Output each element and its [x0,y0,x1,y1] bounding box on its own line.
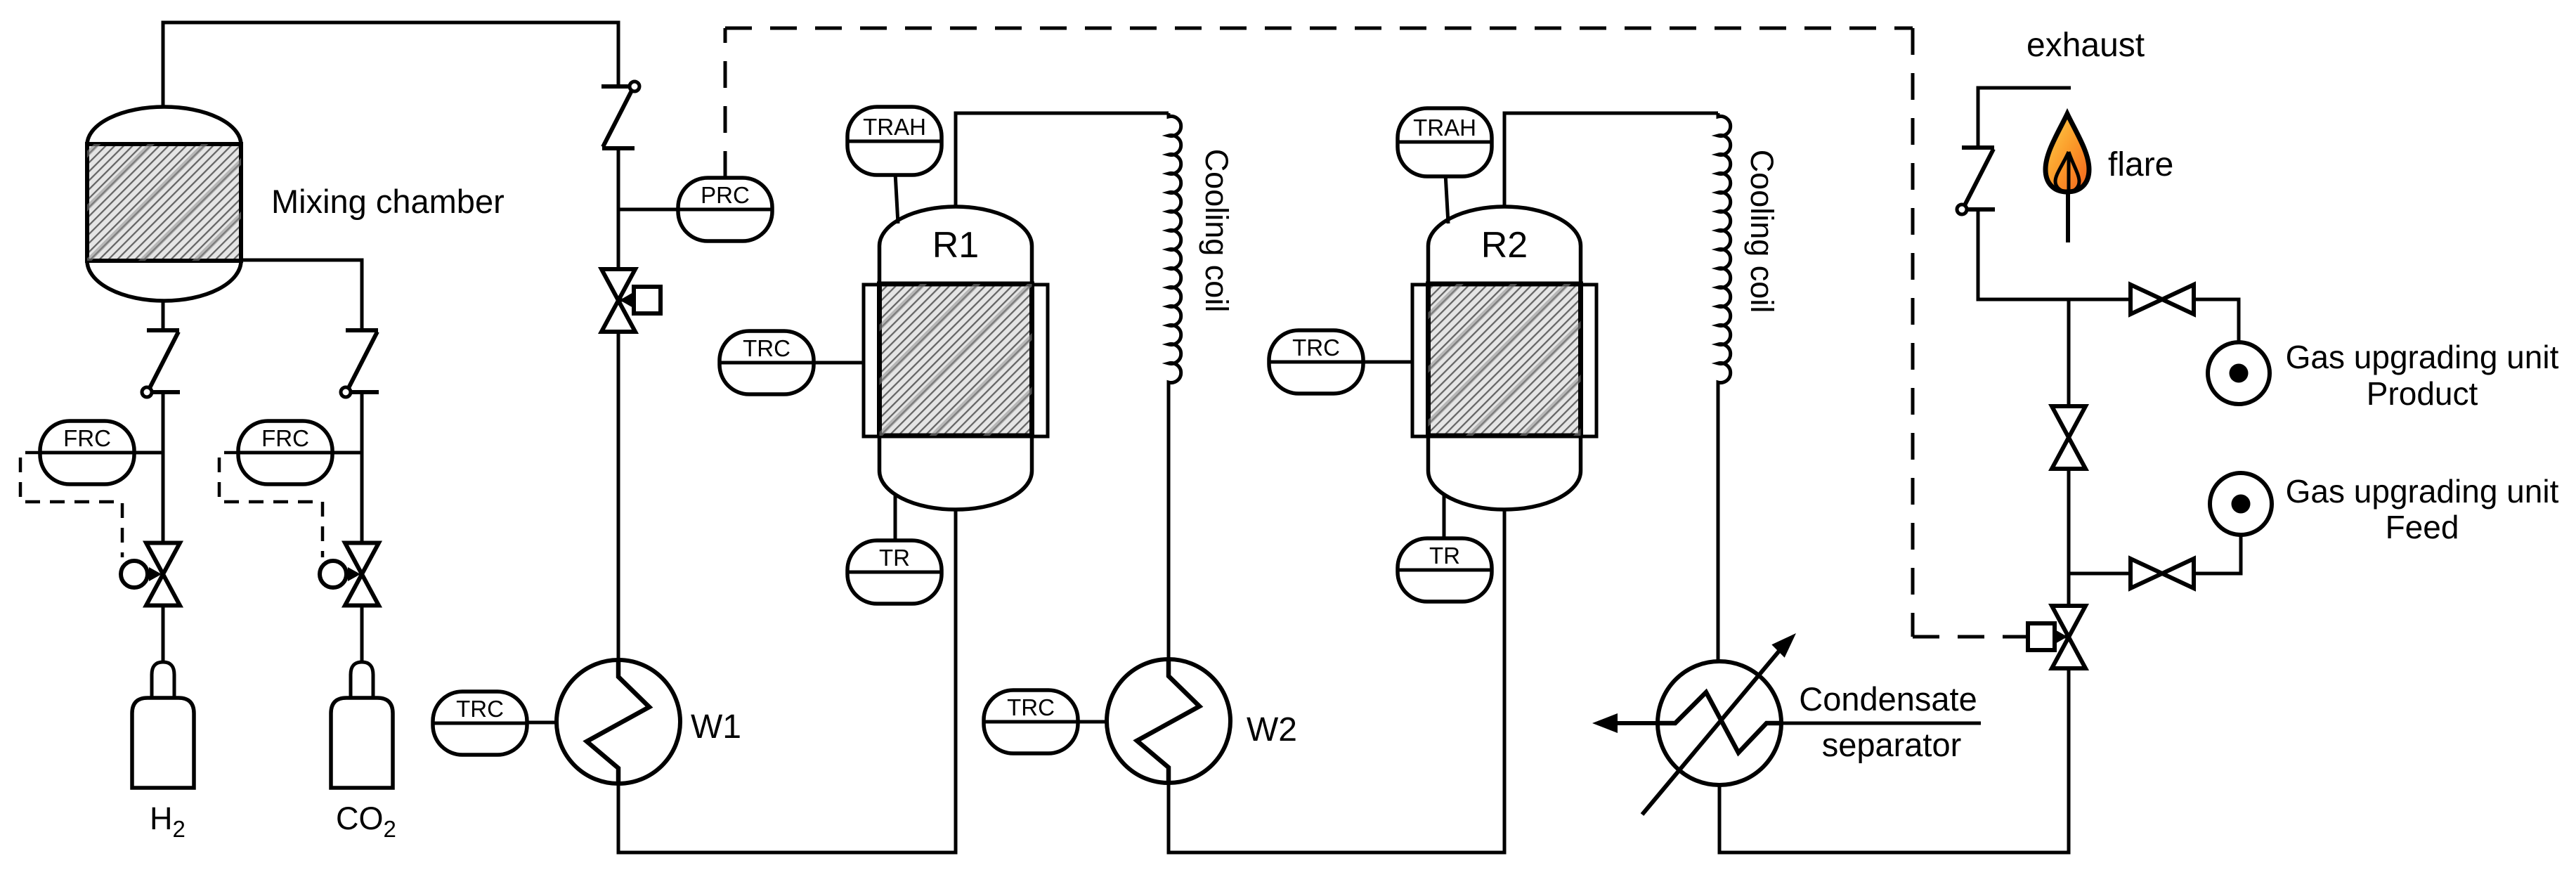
wire riser to flare branch [1978,210,2069,299]
svg-text:Mixing chamber: Mixing chamber [271,183,505,220]
gas cylinder H2 [132,662,194,788]
wire coil 1 to W2 [1167,384,1171,660]
wire FRC CO2 connector [332,451,362,455]
wire R2 top to cooling coil 2 [1504,113,1718,208]
reactor R2 catalyst bed (hatched) [1429,284,1581,436]
svg-text:TRC: TRC [743,335,791,361]
valve V2 H2 line (manual shut-off) [142,330,180,397]
valve V1 mixing outlet (manual shut-off) [601,82,639,148]
wire flare valve to exhaust [1978,88,2071,146]
wire valve to PRC junction [617,149,620,269]
svg-text:Gas upgrading unit: Gas upgrading unit [2286,339,2559,375]
wire FRC H2 connector [133,451,163,455]
svg-text:Condensate: Condensate [1799,680,1977,718]
reactor R1 heating jacket [864,285,1048,436]
wire TRC-R2 connector [1363,361,1412,364]
svg-text:flare: flare [2108,146,2173,183]
svg-text:W2: W2 [1247,711,1297,748]
wire mixing chamber bottom outlet H2 side [162,301,165,330]
control valve FCV CO2 [320,543,379,606]
flare flame [2045,114,2089,242]
TR R2 connector [1443,493,1446,539]
valve V3 CO2 line (manual shut-off) [341,330,379,397]
wire CO2 riser lower [360,605,364,662]
svg-text:TR: TR [879,545,910,571]
heat exchanger W2 [1107,659,1230,783]
instrument FRC CO2 [238,421,332,484]
cooling coil 1 [1169,113,1181,660]
instrument TRAH R1 [847,107,942,175]
mixing chamber packing (hatched) [87,144,241,261]
reactor R1 vessel [880,207,1032,510]
signal line FRC CO2 to valve (dashed) [219,453,323,557]
wire CO2 riser upper [360,392,364,544]
instrument TR R1 [847,540,942,604]
wire H2 riser upper [162,392,165,544]
heat exchanger W1 [557,660,680,784]
sample point gas upgrading product [2208,342,2270,404]
gas cylinder CO2 [331,662,393,788]
signal line PRC to control valve (dashed) [725,28,2026,637]
svg-text:Gas upgrading unit: Gas upgrading unit [2286,473,2559,510]
wire H2 riser lower [162,605,165,662]
reactor R2 heating jacket [1412,285,1596,436]
TRAH R1 connector [895,173,898,223]
wire control valve to W1 [617,332,620,661]
control valve FCV H2 [121,543,180,606]
TR R1 connector [894,493,897,541]
wire feed valve to sample point [2194,536,2241,573]
svg-text:Cooling coil: Cooling coil [1744,150,1780,313]
wire W1 to R1 bottom [618,508,956,852]
svg-text:FRC: FRC [63,425,111,451]
svg-text:TRAH: TRAH [863,114,926,140]
svg-text:Product: Product [2367,375,2478,412]
valve V4 flare line (manual shut-off) [1957,148,1995,214]
reactor R1 catalyst bed (hatched) [880,284,1032,436]
svg-text:FRC: FRC [261,425,309,451]
condensate separator (cooler) [1642,633,1796,815]
wire coil 2 to condensate separator [1717,384,1720,662]
svg-text:exhaust: exhaust [2027,27,2145,64]
wire product riser [2067,299,2071,606]
wire TRC-W2 connector [1078,720,1107,724]
svg-text:Cooling coil: Cooling coil [1199,149,1235,313]
svg-text:TRC: TRC [1292,335,1340,361]
mixing chamber vessel [87,107,241,301]
instrument FRC H2 [40,421,134,484]
svg-text:TRC: TRC [1007,694,1055,720]
condensate drain arrow [1592,713,1658,733]
signal line FRC H2 to valve (dashed) [20,453,122,557]
svg-text:Feed: Feed [2386,509,2459,545]
wire feed branch [2069,572,2131,576]
control valve PCV (pressure control) [601,269,661,332]
instrument TRC R2 [1269,330,1363,394]
svg-text:W1: W1 [691,708,741,746]
wire mixing chamber side outlet CO2 side [241,260,362,330]
label Condensate separator [1782,680,1981,763]
wire W2 to R2 bottom [1169,508,1504,852]
wire R1 top to cooling coil 1 [956,113,1169,208]
TRAH R2 connector [1445,174,1448,223]
wire separator to product valve line [1719,668,2069,852]
instrument TRC W1 [433,692,527,755]
wire product valve to sample point [2194,299,2239,343]
svg-text:R2: R2 [1481,225,1528,266]
svg-text:PRC: PRC [701,182,750,208]
wire product branch [2069,298,2131,301]
valve riser (vertical) [2052,406,2086,469]
wire TRC-R1 connector [814,361,864,365]
instrument TRC W2 [984,690,1078,753]
instrument PRC [678,178,772,241]
svg-text:TRC: TRC [456,696,504,722]
valve product line [2131,285,2194,314]
control valve at gas upgrading line [2028,606,2086,668]
svg-text:separator: separator [1822,726,1962,763]
wire TRC-W1 connector [527,721,557,725]
wire mixing chamber top outlet [163,22,618,108]
instrument TRC R1 [720,331,814,394]
svg-text:R1: R1 [932,225,979,266]
reactor R2 vessel [1429,207,1581,510]
cooling coil 2 [1718,113,1731,662]
sample point gas upgrading feed [2210,473,2272,535]
instrument TRAH R2 [1398,108,1492,176]
svg-text:TRAH: TRAH [1413,115,1476,141]
wire PRC connector [618,208,678,212]
instrument TR R2 [1398,538,1492,602]
svg-text:TR: TR [1429,543,1460,569]
valve feed line [2131,559,2194,588]
